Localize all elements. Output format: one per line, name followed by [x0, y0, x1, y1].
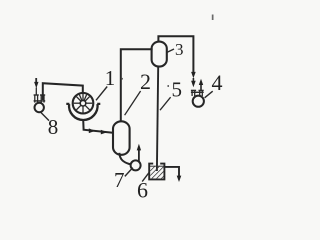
flask 8 inlet stem into tube — [35, 88, 37, 96]
label 5 leader — [160, 97, 171, 110]
flask 4 feed line mid — [192, 78, 194, 81]
label 3 leader — [167, 49, 174, 52]
drain arrowhead — [177, 176, 182, 182]
flask 4 feed arrowhead 2 — [191, 81, 196, 87]
stray scan mark — [212, 15, 214, 21]
blower 1 rim — [73, 93, 94, 114]
flask 4 neck flanges — [191, 90, 204, 92]
flask 8 neck flanges — [34, 95, 46, 101]
wire: vessel 2 top to vessel 3 — [121, 49, 153, 121]
junction dot — [121, 78, 123, 80]
wire: tank 6 drain — [164, 167, 179, 177]
svg-text:6: 6 — [137, 178, 148, 203]
pump 7 — [131, 160, 141, 170]
label 5 dot — [167, 85, 169, 87]
svg-text:1: 1 — [105, 66, 116, 90]
label 1 leader — [96, 87, 107, 101]
tank 6 liquid surface — [150, 165, 164, 167]
wire: vessel 2 bottom to pump 7 — [119, 153, 130, 165]
blower 1 spokes — [74, 94, 93, 113]
flask 4 body circle — [193, 96, 204, 107]
tank 6 hatching — [150, 166, 164, 179]
pump 7 riser — [138, 149, 140, 161]
wire 5: vessel 3 bottom to tank 6 — [157, 66, 158, 171]
flask 4 vent arrowhead — [199, 79, 203, 85]
label 7 leader — [125, 168, 133, 177]
flask 8 body circle — [35, 103, 44, 112]
svg-text:4: 4 — [212, 70, 223, 95]
svg-text:3: 3 — [175, 40, 184, 59]
flask 8 (gas bottle, left) : inlet down-arrow — [35, 78, 37, 83]
blower 1 cradle casing — [66, 104, 100, 120]
flow arrowhead b — [101, 130, 107, 135]
blower 1 hub — [80, 100, 86, 106]
paper background — [0, 0, 250, 217]
label 6 leader — [142, 172, 149, 182]
svg-text:2: 2 — [140, 69, 151, 94]
flask 4 feed arrowhead 1 — [191, 72, 196, 78]
riser arrowhead — [137, 144, 141, 151]
svg-text:8: 8 — [48, 115, 59, 139]
vessel 3 — [152, 42, 167, 67]
wire: flask 8 outlet to blower inlet — [43, 83, 83, 100]
flask 4 vent line — [200, 84, 202, 91]
tank 6 box — [149, 164, 164, 180]
flask 8 neck tubes — [35, 95, 44, 102]
label 4 leader — [205, 91, 213, 98]
flow arrowhead a — [89, 128, 95, 133]
label 8 leader — [41, 112, 49, 120]
flask 4 neck tubes — [192, 91, 202, 97]
vessel 2 — [113, 121, 130, 155]
svg-text:7: 7 — [114, 168, 125, 192]
wire: vessel 3 top to flask 4 — [158, 36, 193, 72]
wire: blower outlet to vessel 2 — [83, 119, 113, 132]
label 2 leader — [125, 91, 141, 115]
svg-text:5: 5 — [171, 78, 182, 102]
flask 8 inlet arrowhead — [34, 82, 38, 88]
